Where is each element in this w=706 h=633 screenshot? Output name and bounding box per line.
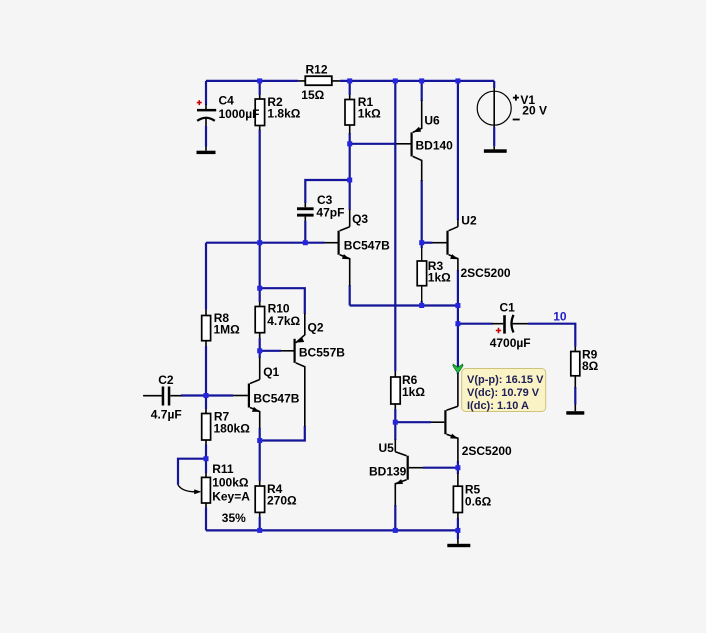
wire U2 collector to rail <box>457 81 459 220</box>
wire bottom rail <box>206 529 458 531</box>
wire top rail left segment <box>206 80 298 82</box>
node dot input node <box>204 393 209 398</box>
svg-text:BC547B: BC547B <box>344 239 390 253</box>
transistor U6 BD140 <box>396 100 453 181</box>
wire R1 bottom / Q3 collector column <box>349 133 351 210</box>
wire R10 bottom to Q2 base node <box>259 338 261 351</box>
wire R11 wiper loop <box>178 459 206 485</box>
node dot Q3 base row R2 <box>257 240 262 245</box>
wire C3 top branch <box>305 180 349 203</box>
svg-text:1kΩ: 1kΩ <box>402 385 425 399</box>
transistor Q1 BC547B <box>233 358 300 429</box>
resistor R10 <box>255 302 300 339</box>
svg-text:C2: C2 <box>158 373 174 387</box>
node dot R7 bottom <box>204 456 209 461</box>
node dot U5 base node <box>455 465 460 470</box>
dc source V1 <box>477 88 547 127</box>
wire Q2 base link <box>260 350 281 352</box>
wire output emitter node blue part <box>457 461 459 474</box>
resistor R6 <box>391 371 426 409</box>
resistor R3 <box>417 248 451 302</box>
node dot C3 top tap <box>347 178 352 183</box>
svg-text:100kΩ: 100kΩ <box>212 476 249 490</box>
node dot R6 top <box>393 78 398 83</box>
svg-text:BD139: BD139 <box>369 465 407 479</box>
wire R5 bottom lead <box>457 518 459 530</box>
wire U5 base link <box>423 467 458 469</box>
capacitor C4 labels <box>219 94 260 121</box>
svg-text:47pF: 47pF <box>316 206 344 220</box>
svg-text:0.6Ω: 0.6Ω <box>465 494 492 508</box>
wire R4 bottom lead <box>259 517 261 530</box>
ground below V1 <box>484 146 507 153</box>
node dot R3 bottom rail <box>419 303 424 308</box>
node dot Q2 base tap <box>257 348 262 353</box>
node dot mid rail right <box>455 303 460 308</box>
node dot R2 top <box>257 78 262 83</box>
svg-text:10: 10 <box>553 309 567 323</box>
svg-text:4.7kΩ: 4.7kΩ <box>267 314 300 328</box>
ground below R9 <box>566 405 584 415</box>
svg-text:Q1: Q1 <box>263 365 279 379</box>
wire C1 right to R9 corner <box>528 324 575 347</box>
svg-text:2SC5200: 2SC5200 <box>461 266 511 280</box>
node dot R1 top <box>347 78 352 83</box>
svg-text:C1: C1 <box>500 301 516 315</box>
transistor Q2 BC557B <box>281 314 345 427</box>
svg-text:BC547B: BC547B <box>253 392 299 406</box>
node dot R1 bottom <box>347 141 352 146</box>
wire R6 column from rail <box>394 81 396 371</box>
wire R7 top lead <box>205 396 207 410</box>
svg-text:R11: R11 <box>212 462 234 476</box>
svg-text:1.8kΩ: 1.8kΩ <box>267 106 300 120</box>
svg-text:15Ω: 15Ω <box>301 88 324 102</box>
wire C2 right lead <box>181 394 206 396</box>
wire Q1 collector up <box>259 351 261 358</box>
wire C4 bottom lead <box>205 126 207 147</box>
wire R10 top link <box>260 288 305 314</box>
resistor R1 <box>345 95 381 134</box>
wire output transistor base row <box>395 421 431 423</box>
node dot R5 bottom rail <box>455 528 460 533</box>
node dot C1 tap <box>455 321 460 326</box>
wire R3 bottom lead <box>421 301 423 306</box>
capacitor C2 <box>143 373 182 421</box>
svg-text:4.7µF: 4.7µF <box>151 407 182 421</box>
wire C3 bottom lead <box>304 221 306 243</box>
wire output node column <box>457 306 459 375</box>
wire R1 top lead <box>349 81 351 95</box>
wire C4 top lead <box>205 81 207 105</box>
wire U5 collector upper part <box>394 422 396 440</box>
svg-text:BC557B: BC557B <box>299 346 345 360</box>
svg-text:R12: R12 <box>306 62 328 76</box>
wire U2 base link <box>422 242 433 244</box>
node dot Q1 emitter node <box>257 438 262 443</box>
wire ground stub bottom <box>457 530 459 539</box>
node dot U6 emitter top <box>419 78 424 83</box>
capacitor C1 <box>490 301 531 351</box>
wire Q1 emitter lower part <box>259 428 261 441</box>
svg-text:Key=A: Key=A <box>212 490 250 504</box>
wire V1 bottom lead <box>493 127 495 146</box>
svg-text:4700µF: 4700µF <box>490 336 531 350</box>
node dot U2 collector top <box>455 78 460 83</box>
probe arrow green <box>453 364 463 373</box>
svg-text:1kΩ: 1kΩ <box>428 271 451 285</box>
resistor R7 <box>202 409 250 445</box>
ground below C4 <box>197 147 216 155</box>
svg-text:2SC5200: 2SC5200 <box>462 444 512 458</box>
wire C1 left lead <box>458 323 493 325</box>
resistor R9 <box>571 347 599 388</box>
wire R4 top lead <box>259 441 261 482</box>
wire top rail right segment <box>340 80 494 82</box>
transistor Q3 BC547B <box>325 210 391 286</box>
wire R11 top lead <box>205 459 207 473</box>
resistor R8 <box>202 310 240 347</box>
transistor U5 BD139 (mirrored) <box>369 440 423 506</box>
svg-text:C4: C4 <box>219 94 235 108</box>
wire U5 emitter lower part <box>394 505 396 530</box>
wire R7 bottom lead <box>205 445 207 459</box>
ground bottom rail <box>447 539 470 547</box>
wire Q1 base link <box>206 394 233 396</box>
wire mid rail <box>350 304 458 306</box>
svg-text:V(dc): 10.79 V: V(dc): 10.79 V <box>467 387 540 399</box>
wire R11 bottom lead <box>205 508 207 531</box>
capacitor C3 <box>297 193 344 221</box>
node dot U5 emitter rail <box>393 528 398 533</box>
svg-text:U2: U2 <box>461 214 477 228</box>
wire R2 bottom to node row <box>259 130 261 303</box>
svg-text:Q3: Q3 <box>352 212 368 226</box>
svg-text:180kΩ: 180kΩ <box>214 422 251 436</box>
wire Q2 collector to Q1 emitter node <box>260 426 305 441</box>
svg-text:BD140: BD140 <box>416 138 454 152</box>
svg-text:1kΩ: 1kΩ <box>358 107 381 121</box>
node dot R4 bottom rail <box>257 528 262 533</box>
svg-text:35%: 35% <box>222 511 246 525</box>
transistor U2 2SC5200 upper <box>433 214 511 281</box>
wire U2 emitter down <box>457 270 459 306</box>
capacitor C4 <box>197 100 216 126</box>
wire U6 collector to R3 <box>421 180 423 248</box>
node dot R10 top <box>257 286 262 291</box>
wire V1 top lead <box>493 81 495 88</box>
resistor R2 <box>255 95 301 130</box>
resistor R5 <box>453 474 491 519</box>
svg-text:Q2: Q2 <box>308 321 324 335</box>
wire Q3 emitter down <box>349 285 351 306</box>
svg-text:U5: U5 <box>379 441 395 455</box>
wire R8 bottom to input node <box>205 346 207 396</box>
wire R9 bottom lead <box>574 387 576 405</box>
node dot U2 base tap <box>419 240 424 245</box>
wire Q3 base feed row <box>206 242 325 244</box>
wire R8 top column <box>205 243 207 310</box>
potentiometer R11 <box>178 462 250 525</box>
wire R2 top lead <box>259 81 261 95</box>
svg-text:8Ω: 8Ω <box>582 359 599 373</box>
transistor 2SC5200 lower output <box>431 374 512 462</box>
svg-text:I(dc): 1.10 A: I(dc): 1.10 A <box>467 400 529 412</box>
svg-text:1000µF: 1000µF <box>219 107 260 121</box>
wire R6 bottom lead <box>394 409 396 422</box>
svg-text:20 V: 20 V <box>522 104 547 118</box>
node dot C3 bottom tap <box>303 240 308 245</box>
resistor R4 <box>255 481 297 517</box>
svg-text:1MΩ: 1MΩ <box>214 323 241 337</box>
resistor R12 <box>298 62 340 102</box>
wire R1 bottom to U6 base <box>350 143 396 145</box>
wire U6 emitter feed <box>421 81 423 101</box>
svg-text:270Ω: 270Ω <box>267 494 297 508</box>
svg-text:U6: U6 <box>424 114 440 128</box>
node dot R6 bottom <box>393 420 398 425</box>
svg-text:V(p-p): 16.15 V: V(p-p): 16.15 V <box>467 374 544 386</box>
probe readout box <box>462 369 546 413</box>
